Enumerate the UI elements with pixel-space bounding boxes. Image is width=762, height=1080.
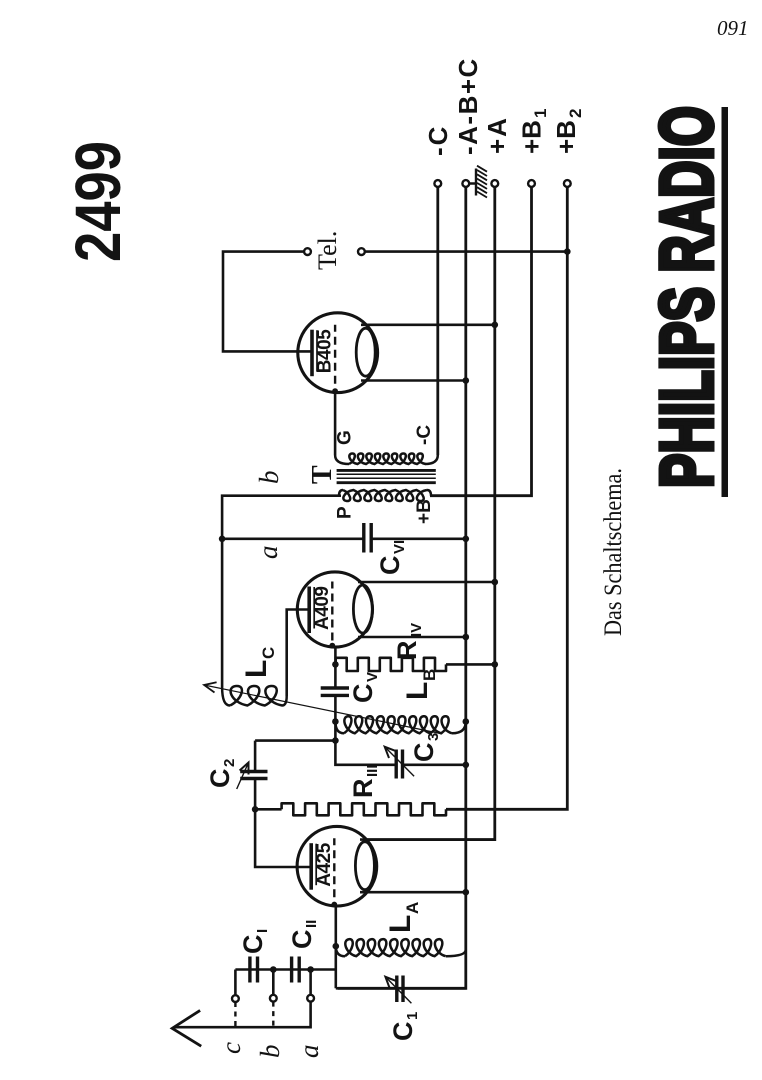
wire stub to terminal c (234, 970, 237, 996)
svg-text:G: G (335, 430, 356, 445)
svg-text:Das Schaltschema.: Das Schaltschema. (600, 468, 627, 636)
A409 grid (dashed) (331, 582, 333, 641)
wire C-3 lower lead (403, 763, 466, 766)
svg-text:Tel.: Tel. (313, 231, 342, 270)
svg-text:III: III (364, 764, 381, 777)
svg-text:-C: -C (423, 125, 453, 156)
svg-text:-C: -C (414, 425, 435, 445)
svg-text:3: 3 (425, 733, 442, 741)
A409 label underline (313, 587, 315, 629)
B405 grid exit dot (332, 388, 338, 394)
junction L-B/-A-B+C (463, 718, 470, 725)
wire A425 grid bus (334, 906, 337, 988)
wire stub to terminal a (309, 970, 312, 995)
tube A425 (HF valve) (297, 826, 377, 906)
svg-text:b: b (255, 1045, 285, 1059)
wire aerial coupling bus (235, 968, 335, 971)
transformer T secondary winding (349, 453, 426, 464)
wire A409 anode to L-C (287, 610, 309, 697)
terminal -A-B+C (462, 180, 469, 187)
svg-text:C: C (287, 930, 317, 950)
A425 grid (dashed) (333, 838, 335, 897)
wire +B2 rail (446, 187, 567, 810)
terminal Tel left (304, 248, 311, 255)
svg-text:A: A (403, 902, 422, 914)
junction R-IV/grid bus (332, 661, 339, 668)
junction a stub (307, 966, 314, 973)
svg-text:+B: +B (551, 120, 581, 154)
junction L-B/grid bus (332, 718, 339, 725)
wire B405 grid to transformer G (334, 392, 337, 456)
svg-text:B: B (420, 669, 439, 681)
capacitor C-II (290, 957, 293, 983)
capacitor C-V (321, 686, 349, 689)
wire A425 filament left leg (360, 891, 466, 894)
junction B405 fil/-A-B+C (463, 377, 470, 384)
A425 filament (355, 842, 374, 890)
wire C-1 upper lead (336, 987, 397, 990)
svg-text:1: 1 (531, 109, 550, 118)
svg-text:L: L (401, 682, 434, 700)
wire R-III upper lead (255, 808, 282, 811)
wire A409 grid bus lower (335, 695, 396, 764)
wire P / C-VI / L-C bus (222, 496, 341, 687)
A425 anode bar (309, 843, 313, 890)
svg-text:b: b (254, 471, 284, 485)
wire C-2 top lead (254, 741, 257, 772)
junction L-A/grid bus (333, 943, 340, 950)
wire A409 filament left leg (358, 636, 466, 639)
svg-text:c: c (216, 1042, 246, 1054)
wire dashed link c (234, 1002, 236, 1026)
junction A425 fil/-A-B+C (463, 889, 470, 896)
wire +B1 rail (430, 187, 532, 496)
wire A409 grid bus upper (334, 647, 337, 687)
terminal -C (434, 180, 441, 187)
svg-text:+B: +B (517, 120, 547, 154)
resistor R-III (282, 803, 446, 815)
capacitor C-3 (variable) (401, 750, 404, 779)
wire R-IV to +A rail (446, 663, 495, 666)
capacitor C-I (248, 957, 251, 983)
transformer core (337, 470, 436, 482)
wire Tel to B405 anode (223, 252, 311, 352)
svg-text:C: C (238, 935, 268, 955)
svg-text:V: V (364, 672, 381, 682)
junction A409 fil/-A-B+C (463, 634, 470, 641)
A425 grid exit dot (331, 902, 337, 908)
junction Tel/+B2 (564, 248, 571, 255)
svg-text:P: P (335, 506, 356, 519)
arrow C-2 variable (237, 763, 249, 790)
junction B405 fil/+A (492, 322, 499, 329)
B405 grid (dashed) (334, 325, 336, 384)
svg-text:II: II (303, 920, 320, 928)
svg-text:C: C (388, 1022, 418, 1042)
terminal +B2 (564, 180, 571, 187)
resistor R-IV (336, 658, 446, 671)
wire C-VI upper lead (222, 537, 364, 540)
arrow C-1 variable (385, 977, 411, 1004)
A409 grid exit dot (329, 643, 335, 649)
junction R-III/C-2 wire (252, 806, 259, 813)
logo underline (722, 107, 729, 497)
terminal +A (491, 180, 498, 187)
junction R-IV/+A (492, 661, 499, 668)
wire C-1 lower lead (403, 987, 466, 990)
coil L-C (230, 686, 282, 706)
tube B405 (output valve) (298, 313, 378, 393)
junction C-VI/-A-B+C (463, 536, 470, 543)
aerial arrow (172, 1010, 201, 1046)
svg-text:2: 2 (566, 109, 585, 118)
wire aerial lead (174, 1002, 311, 1028)
wire Tel to +B2 rail (365, 250, 568, 253)
svg-text:A425: A425 (314, 842, 335, 886)
terminal +B1 (528, 180, 535, 187)
wire dashed link b (272, 1002, 274, 1026)
svg-text:IV: IV (408, 623, 425, 637)
A425 label underline (315, 844, 317, 886)
terminal Tel right (358, 248, 365, 255)
svg-text:L: L (240, 660, 273, 678)
capacitor C-VI (362, 523, 365, 553)
svg-text:-A-B+C: -A-B+C (453, 57, 483, 155)
wire C-VI lower lead (371, 537, 466, 540)
svg-text:C: C (205, 769, 235, 789)
svg-text:C: C (348, 684, 378, 704)
A409 filament (353, 585, 372, 633)
svg-text:R: R (392, 641, 422, 661)
transformer T primary winding (343, 490, 427, 501)
svg-text:a: a (294, 1045, 324, 1059)
junction C-2 bus/grid bus (332, 737, 339, 744)
svg-text:C: C (259, 647, 278, 659)
capacitor C-2 (variable) (240, 770, 267, 773)
junction b stub (270, 966, 277, 973)
coil L-B (344, 716, 452, 733)
svg-text:1: 1 (404, 1012, 421, 1020)
wire A409 filament right leg (358, 581, 495, 584)
svg-text:a: a (253, 546, 283, 560)
svg-text:L: L (384, 915, 417, 933)
svg-text:+A: +A (482, 116, 512, 154)
svg-text:2499: 2499 (62, 141, 134, 262)
svg-text:091: 091 (717, 16, 749, 40)
wire B405 filament right leg (361, 323, 495, 326)
arrow variable coupling L-C/L-B (204, 685, 441, 734)
terminal a (307, 995, 314, 1002)
B405 label underline (316, 330, 318, 372)
wire B405 filament left leg (361, 379, 466, 382)
wire A425 filament right leg (360, 838, 495, 841)
B405 anode bar (310, 330, 314, 377)
coil L-A (345, 939, 446, 956)
svg-text:C: C (375, 556, 405, 576)
wire C-2 bus to grid (255, 739, 335, 742)
wire -A-B+C rail (338, 187, 466, 989)
junction A409 fil/+A (492, 579, 499, 586)
svg-text:T: T (307, 465, 338, 484)
capacitor C-1 (variable) (395, 976, 398, 1003)
junction C-VI top (219, 536, 226, 543)
svg-text:C: C (409, 743, 439, 763)
tube A409 (detector-amplifier valve) (297, 572, 372, 647)
wire C-2 to A425 anode (255, 779, 311, 868)
svg-text:+B: +B (414, 499, 435, 524)
svg-text:VI: VI (391, 540, 408, 554)
junction C-3/-A-B+C (463, 762, 470, 769)
svg-text:2: 2 (221, 759, 238, 767)
arrow C-3 variable (385, 747, 414, 776)
svg-text:PHILIPS RADIO: PHILIPS RADIO (645, 106, 728, 488)
A409 anode bar (307, 587, 311, 634)
wire -C rail (436, 187, 439, 455)
svg-text:I: I (254, 929, 271, 933)
B405 filament (356, 328, 375, 376)
svg-text:R: R (348, 779, 378, 799)
svg-text:A409: A409 (312, 586, 333, 630)
ground symbol (469, 169, 476, 196)
terminal b (270, 995, 277, 1002)
wire +A rail (364, 187, 495, 840)
svg-text:B405: B405 (315, 329, 336, 373)
terminal c (232, 995, 239, 1002)
wire stub to terminal b (272, 970, 275, 995)
